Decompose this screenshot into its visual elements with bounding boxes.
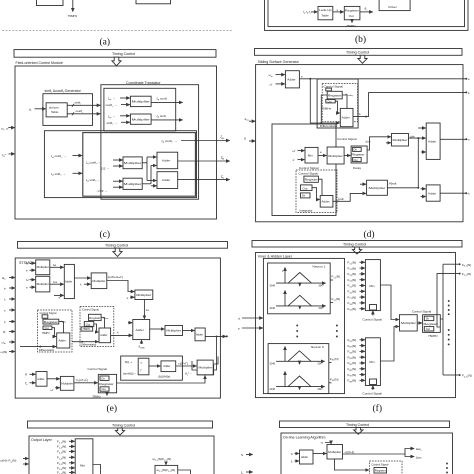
svg-text:Register: Register [328, 93, 342, 97]
svg-text:Out: Out [327, 100, 331, 103]
inputs m3 [113, 159, 123, 161]
svg-text:Delay: Delay [353, 166, 361, 170]
vertical bus [417, 138, 419, 188]
multiplier e6 [198, 365, 214, 375]
svg-text:δ(t) +: δ(t) + [125, 360, 133, 364]
svg-text:75MHz: 75MHz [82, 328, 91, 331]
outer box [15, 258, 220, 398]
svg-text:Differentiator: Differentiator [81, 342, 96, 346]
svg-text:(b): (b) [355, 34, 366, 45]
outer box [256, 253, 456, 398]
F input stack [57, 440, 75, 474]
control signal dashed box right [80, 307, 114, 347]
svg-text:Sliding Surface Generator: Sliding Surface Generator [258, 60, 300, 64]
wires integ [318, 179, 322, 195]
svg-text:ω(N): ω(N) [1, 350, 8, 354]
wire adder2 to m5 [150, 328, 165, 330]
register h [374, 468, 387, 474]
driver block (cut off at top) [379, 0, 410, 11]
svg-text:s(λθ̇+λė+Γ): s(λθ̇+λė+Γ) [108, 275, 123, 279]
dots right side [448, 300, 450, 345]
svg-text:Control Signal: Control Signal [40, 311, 57, 315]
wire multiplier to register [344, 155, 350, 157]
svg-text:(e): (e) [107, 403, 118, 414]
output bus vertical [440, 264, 443, 319]
svg-text:Register: Register [89, 316, 100, 320]
svg-text:Multiplier: Multiplier [328, 450, 341, 454]
clock 75MHz [106, 393, 108, 396]
svg-text:Register: Register [375, 469, 386, 473]
hollow down arrow [115, 428, 124, 435]
svg-text:Register: Register [345, 9, 359, 13]
svg-text:Multiplier: Multiplier [61, 381, 73, 385]
wire into R [72, 341, 98, 343]
adder2 inputs [421, 188, 426, 190]
wire a4 to m7 [47, 378, 60, 380]
svg-text:Multiplier: Multiplier [369, 186, 386, 190]
svg-text:δ: δ [291, 452, 293, 456]
hollow down arrow [354, 428, 363, 435]
register block [327, 91, 342, 99]
min block [305, 147, 318, 163]
svg-text:-2048: -2048 [269, 364, 276, 366]
hollow down arrow [358, 55, 367, 63]
plot 2 axes [276, 305, 325, 307]
svg-text:e: e [26, 285, 28, 289]
svg-text:Control Signal: Control Signal [82, 308, 99, 312]
control signal dashed box left [38, 310, 73, 352]
svg-text:Adder: Adder [287, 78, 295, 82]
adder block diff [340, 108, 353, 126]
adder block 2 [157, 172, 178, 189]
svg-text:Neuron 1: Neuron 1 [313, 265, 326, 269]
svg-text:F2,7(N): F2,7(N) [57, 471, 66, 474]
neuron 1 box [268, 263, 331, 314]
svg-text:e: e [468, 77, 470, 81]
register block integ [304, 176, 319, 182]
svg-text:e: e [301, 75, 303, 79]
svg-text:1/2 →: 1/2 → [101, 167, 109, 171]
svg-text:Multiplier: Multiplier [124, 161, 142, 165]
svg-text:Timing Control: Timing Control [346, 423, 369, 427]
adder block e [285, 71, 299, 88]
svg-text:αλė: αλė [366, 140, 371, 144]
adder tall 2 [133, 320, 150, 340]
svg-text:Adder: Adder [162, 159, 170, 163]
control signal dashed box [322, 83, 357, 121]
svg-text:Differentiator: Differentiator [39, 348, 54, 352]
sliding-mode inner box [272, 124, 336, 216]
adder e5 [161, 361, 176, 372]
wire up to output 2 [369, 91, 466, 93]
control signal min1 [372, 311, 374, 316]
svg-text:Multiplier: Multiplier [401, 321, 416, 325]
svg-text:75MHz: 75MHz [321, 107, 331, 111]
svg-text:(sinθ(t))→: (sinθ(t))→ [123, 372, 137, 376]
plot 4 axes [276, 386, 324, 388]
svg-text:-η: -η [321, 441, 324, 445]
wire switch to adder [149, 365, 160, 367]
svg-text:S: S [241, 453, 243, 457]
svg-text:Register: Register [352, 153, 365, 157]
svg-text:Control Signal: Control Signal [363, 317, 383, 321]
clock tick 75MHz [351, 20, 353, 23]
svg-text:λ²∫edt: λ²∫edt [389, 181, 397, 185]
svg-text:Field-oriented Control Module: Field-oriented Control Module [16, 61, 63, 65]
wire mult to register f [417, 322, 422, 324]
svg-text:Multiplier: Multiplier [199, 366, 213, 370]
svg-text:75MHz: 75MHz [42, 332, 51, 335]
bus wires between multipliers and adders [142, 162, 147, 164]
wire register up-right [367, 144, 369, 150]
hollow down arrow [112, 57, 121, 66]
multiplier e5 [165, 326, 183, 336]
svg-text:Timing Control: Timing Control [346, 51, 369, 55]
adder block R [99, 328, 111, 343]
output F22 [437, 274, 459, 327]
differentiator box [317, 79, 358, 128]
svg-text:Control Signal: Control Signal [299, 166, 319, 170]
hollow down arrow [352, 247, 361, 254]
svg-text:Control Signal: Control Signal [299, 172, 319, 176]
svg-text:Adder: Adder [65, 280, 72, 284]
multiplier f [400, 315, 418, 331]
wire mult down to cs [335, 459, 369, 470]
dir block integ [301, 193, 311, 198]
multiplier block 2 [130, 114, 151, 124]
plot 1 axes [276, 282, 325, 284]
dots between neurons [296, 325, 338, 338]
svg-text:Out: Out [426, 328, 430, 331]
outer box (cut off at bottom) [29, 436, 214, 474]
wire adder5 to m8 [176, 365, 197, 367]
svg-text:Timing Control: Timing Control [112, 423, 135, 427]
wire min1 to multiplier [380, 285, 398, 320]
multiplier block 1 [130, 96, 151, 106]
weight block [155, 465, 178, 474]
svg-text:Dir: Dir [426, 318, 429, 321]
min box 2 inputs [348, 338, 365, 383]
svg-text:ė: ė [26, 268, 28, 272]
svg-text:Out: Out [349, 14, 354, 18]
inner switch box [138, 358, 149, 375]
output F2m [443, 374, 459, 376]
sin/cos table block [46, 103, 67, 117]
svg-text:75MHz: 75MHz [92, 394, 101, 398]
svg-text:Look-Up: Look-Up [319, 8, 332, 12]
out block integ [301, 185, 313, 191]
svg-text:Driver: Driver [389, 5, 397, 9]
multiplier e2 [36, 276, 50, 292]
wires inside differentiator [321, 95, 327, 123]
timing control bar [28, 421, 213, 428]
svg-text:Adder: Adder [196, 333, 203, 337]
svg-text:Adder: Adder [321, 199, 329, 203]
svg-text:Multiplier: Multiplier [132, 117, 150, 121]
wire into L adder [20, 346, 56, 348]
second translator sub-box [44, 131, 196, 198]
adder1 extra inputs [421, 127, 426, 129]
multiplier h [327, 445, 343, 460]
register stack bottom [98, 374, 116, 392]
svg-text:λė: λė [53, 263, 57, 267]
adder tall e [64, 264, 74, 298]
multiplier e1 [36, 260, 50, 275]
svg-text:Adder: Adder [428, 140, 436, 144]
svg-text:Dir: Dir [302, 195, 305, 198]
svg-text:Timing Control: Timing Control [112, 52, 135, 56]
timing control bar [255, 49, 463, 56]
inner dq box [104, 88, 176, 131]
svg-text:75MHz: 75MHz [428, 334, 438, 338]
svg-text:Out: Out [303, 186, 308, 190]
svg-text:Control Signal: Control Signal [372, 462, 389, 466]
wire min2 to multiplier [380, 327, 398, 362]
svg-text:Out: Out [102, 388, 106, 391]
plot 1 triangle [288, 273, 312, 284]
output wire [205, 335, 226, 337]
plot 3 triangle [288, 351, 311, 362]
svg-text:Multiplier: Multiplier [166, 329, 181, 333]
svg-text:Adder: Adder [59, 338, 66, 342]
svg-text:(f): (f) [373, 403, 383, 414]
svg-text:λ²: λ² [26, 278, 29, 282]
abc thick box [83, 133, 196, 197]
svg-text:75MHz: 75MHz [68, 14, 78, 18]
svg-text:Neuron 9: Neuron 9 [311, 345, 324, 349]
plot 2 triangle [288, 295, 312, 306]
adder block L [57, 333, 70, 348]
svg-text:Adder: Adder [301, 455, 308, 459]
wire m7 to register [74, 382, 98, 384]
svg-text:Control Signal: Control Signal [337, 137, 357, 141]
multiplier e8 [197, 360, 213, 375]
svg-text:Table: Table [321, 13, 329, 17]
out tab [326, 100, 335, 103]
wire loop right [178, 470, 191, 474]
wire with node s [333, 11, 344, 13]
svg-text:d: d [238, 316, 240, 320]
feedback wire 2 [192, 361, 198, 370]
multiplier alambda [392, 134, 409, 147]
svg-text:Timing Control: Timing Control [105, 244, 128, 248]
svg-text:Multiplier: Multiplier [328, 154, 343, 158]
svg-text:Adder: Adder [100, 333, 107, 337]
dir block L [42, 315, 48, 318]
svg-text:Differentiator: Differentiator [320, 124, 338, 128]
timing control bar [18, 242, 228, 249]
wire to outputs [343, 453, 406, 455]
multiplier e3 [91, 273, 107, 289]
svg-text:-2048: -2048 [269, 389, 276, 391]
svg-text:Multiplier: Multiplier [92, 279, 105, 283]
out block R [84, 322, 94, 327]
wire e down into differentiator adder [310, 79, 339, 123]
svg-text:Timing Control: Timing Control [343, 243, 366, 247]
svg-text:Register: Register [424, 322, 439, 326]
out block L [43, 326, 52, 330]
multiplier e4 [135, 290, 153, 300]
outer box [256, 65, 463, 222]
register block R [89, 314, 102, 320]
wire m8 up [213, 357, 218, 365]
adder block 1 [157, 152, 178, 169]
svg-text:Out: Out [86, 322, 91, 326]
block box left (cut off at top) [37, 0, 64, 6]
svg-text:Multiplier: Multiplier [37, 282, 49, 286]
svg-text:Multiplier: Multiplier [136, 293, 151, 297]
hollow down arrow [113, 248, 122, 256]
wire adder to multiplier [313, 453, 326, 455]
outer box [15, 66, 217, 219]
svg-text:ė: ė [4, 286, 6, 290]
min box 2 [365, 338, 380, 386]
wire into look-up table [311, 11, 317, 13]
register block [344, 6, 360, 19]
svg-text:λs: λs [146, 308, 150, 312]
timing control bar [280, 421, 450, 428]
svg-text:Min: Min [370, 284, 375, 288]
svg-text:Control Signal: Control Signal [412, 309, 432, 313]
svg-text:-η(δ+ξ): -η(δ+ξ) [345, 450, 355, 454]
svg-text:Table: Table [51, 110, 59, 114]
wire zc out [178, 179, 230, 181]
svg-text:2047: 2047 [318, 389, 324, 391]
feedback wire [214, 336, 217, 370]
wire out of min g [93, 465, 101, 474]
svg-text:2047: 2047 [319, 285, 325, 287]
svg-text:ε(jV+Γ): ε(jV+Γ) [178, 361, 188, 365]
svg-text:Multiplier: Multiplier [132, 100, 150, 104]
multiplier block 3 [123, 157, 142, 169]
svg-text:-2048: -2048 [269, 308, 276, 310]
svg-text:Min: Min [80, 464, 85, 468]
wire adder to m3 [74, 277, 90, 279]
svg-text:Adder: Adder [428, 192, 436, 196]
adder2 input top-left [128, 322, 132, 324]
Q light box [121, 356, 183, 380]
svg-text:Dir: Dir [354, 149, 357, 152]
svg-text:sin/cos: sin/cos [49, 106, 59, 110]
svg-text:Control Signal: Control Signal [88, 367, 108, 371]
svg-text:Out: Out [45, 327, 49, 330]
svg-text:Control Signal: Control Signal [363, 392, 383, 396]
svg-text:2047: 2047 [318, 364, 324, 366]
svg-text:(d): (d) [364, 229, 375, 240]
svg-text:Register: Register [305, 178, 318, 182]
control signal dashed box h [370, 461, 403, 474]
svg-text:e: e [320, 150, 322, 154]
wires R box [101, 318, 104, 328]
wires L box [59, 322, 64, 333]
svg-text:Multiplier: Multiplier [37, 265, 49, 269]
min box 1 [365, 260, 380, 311]
multiplier mid [327, 147, 344, 164]
dots [446, 463, 448, 474]
inputs m4 [113, 180, 123, 182]
min box g [75, 439, 93, 474]
multiplier e7 [60, 376, 74, 390]
block box right (cut off at top) [136, 0, 171, 4]
svg-text:Register: Register [99, 382, 114, 386]
svg-text:Min: Min [308, 154, 313, 158]
svg-text:Δ(t)/M(s): Δ(t)/M(s) [158, 375, 170, 379]
sdot2 output [440, 192, 465, 194]
plot 3 axes [276, 360, 324, 362]
svg-text:Output Layer: Output Layer [31, 438, 53, 442]
adder tall 2 [426, 185, 440, 201]
multiplier block 4 [123, 178, 142, 189]
input lambda2 [360, 183, 366, 185]
svg-text:Min: Min [370, 360, 375, 364]
svg-text:Multiplier: Multiplier [393, 138, 408, 142]
dir block R [81, 327, 93, 331]
panel (a) outer box bottom border (faint) [2, 30, 233, 32]
svg-text:d̂: d̂ [244, 137, 246, 141]
wire m4 down to adder2 [143, 300, 145, 319]
svg-text:Adder: Adder [136, 328, 144, 332]
adder tall 1 [426, 123, 440, 159]
svg-text:Integrator: Integrator [299, 208, 312, 212]
svg-text:Dir: Dir [102, 377, 105, 380]
timing control bar [14, 50, 216, 58]
control signal dashed box integrator [296, 170, 337, 213]
wire m3 to m4 [107, 281, 134, 292]
look-up table block [318, 6, 333, 19]
multiplier lambda2 [367, 180, 388, 195]
svg-text:h₁(sT+L̂): h₁(sT+L̂) [76, 377, 88, 382]
panel (b) inner module box (cut off at top) [268, 0, 465, 27]
s output [440, 138, 465, 140]
svg-text:-2048: -2048 [269, 285, 276, 287]
svg-text:(a): (a) [100, 37, 111, 48]
adder h [300, 450, 314, 464]
output wire node ds [360, 11, 373, 13]
wire m5 to a3 [183, 330, 195, 332]
inputs malambda [386, 136, 391, 138]
neuron 9 box [268, 344, 329, 394]
svg-text:75MHz: 75MHz [346, 24, 356, 28]
wire zb out [178, 160, 230, 162]
svg-text:∫edt: ∫edt [337, 197, 343, 201]
panel (b) outer box (cut off at top) [265, 0, 469, 30]
svg-text:e: e [238, 326, 240, 330]
adder e3 [195, 328, 205, 341]
register stack mid [351, 146, 367, 163]
svg-text:λ²e: λ²e [53, 280, 58, 284]
bottom adder e4 [36, 372, 47, 387]
membership group box [263, 258, 344, 393]
svg-text:Adder: Adder [163, 364, 170, 368]
svg-text:-√3/2 →: -√3/2 → [97, 189, 108, 193]
register block L [43, 319, 59, 324]
wire down from block [72, 0, 74, 12]
coordinate translator box [101, 85, 199, 200]
register stack f [423, 315, 441, 333]
output F21 [443, 263, 459, 265]
generator box [43, 94, 93, 126]
timing control bar [252, 241, 462, 248]
min box 1 inputs [348, 261, 365, 312]
svg-text:Adder: Adder [37, 377, 44, 381]
svg-text:Out: Out [354, 159, 358, 162]
adder block integ [320, 196, 333, 208]
wire register right [117, 376, 205, 383]
svg-text:Register: Register [44, 320, 58, 324]
plot 4 triangle [288, 376, 311, 387]
svg-text:Adder: Adder [162, 178, 170, 182]
svg-text:(c): (c) [100, 229, 111, 240]
